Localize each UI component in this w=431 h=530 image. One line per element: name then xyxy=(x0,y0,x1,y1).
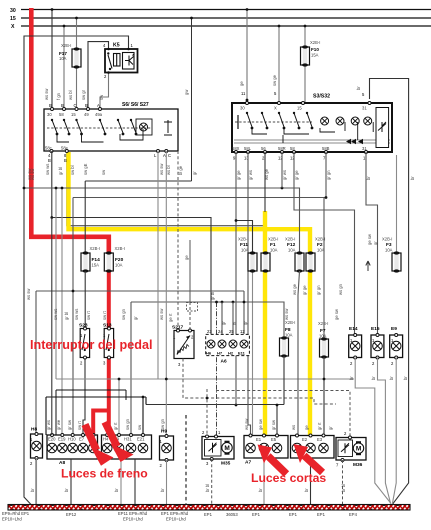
S3 sensor box xyxy=(376,108,389,148)
bus wire 15 xyxy=(21,17,431,19)
svg-text:br: br xyxy=(371,376,376,380)
svg-text:br: br xyxy=(304,488,309,492)
wire A8 ground stub xyxy=(70,459,72,504)
wire arrow stub near F3 xyxy=(366,261,370,271)
wire S3 pin12b to E14 xyxy=(294,152,355,335)
svg-text:EP10=Lhd: EP10=Lhd xyxy=(123,517,143,522)
headlamp unit A7 left xyxy=(244,434,288,466)
svg-text:br: br xyxy=(349,376,354,380)
svg-text:X2B-I: X2B-I xyxy=(115,246,125,251)
fuse F14 xyxy=(81,181,100,273)
svg-text:EP11 EP9=Rhd: EP11 EP9=Rhd xyxy=(118,511,148,516)
svg-text:58e: 58e xyxy=(61,146,69,151)
motor M36 xyxy=(336,431,366,468)
lamp unit E9 xyxy=(390,326,403,366)
lamp H9 xyxy=(160,429,174,469)
svg-text:58L: 58L xyxy=(244,146,252,151)
node dashed x207 y398 xyxy=(206,397,209,400)
svg-text:B: B xyxy=(48,158,51,163)
wire S3 pin13 to A7 xyxy=(248,152,251,436)
wire routing y197 xyxy=(73,198,324,439)
svg-text:br: br xyxy=(403,376,408,380)
ground rail hatched xyxy=(8,505,410,511)
svg-text:B: B xyxy=(61,103,64,108)
wire K5 pin2 to S6 pin A xyxy=(100,73,109,110)
wire dashed M36 feed xyxy=(216,391,350,438)
wire S3 pin12 down xyxy=(281,152,283,188)
fuse F8 xyxy=(280,320,296,358)
svg-text:br: br xyxy=(389,376,394,380)
svg-text:E19: E19 xyxy=(58,437,66,442)
svg-text:gr rt: gr rt xyxy=(317,422,322,430)
svg-text:gr: gr xyxy=(192,171,197,175)
svg-text:A8: A8 xyxy=(59,460,65,466)
wire dashed S6 to S217 xyxy=(177,151,179,331)
svg-text:X2B-I: X2B-I xyxy=(268,237,278,242)
svg-text:E15: E15 xyxy=(371,326,380,332)
svg-text:E11: E11 xyxy=(238,351,246,356)
svg-text:49a: 49a xyxy=(95,112,103,117)
node y302 x244 xyxy=(243,301,246,304)
svg-text:X2B-I: X2B-I xyxy=(315,237,325,242)
svg-text:ws ge: ws ge xyxy=(264,168,269,180)
svg-text:X2B-I: X2B-I xyxy=(318,321,328,326)
wire A6 pin feeds xyxy=(222,302,233,334)
svg-text:E9: E9 xyxy=(391,326,397,332)
svg-text:15: 15 xyxy=(71,112,76,117)
svg-text:C: C xyxy=(168,153,171,158)
wire x56 vertical xyxy=(55,188,57,379)
svg-text:ge: ge xyxy=(184,255,189,260)
svg-text:Luces de freno: Luces de freno xyxy=(61,467,148,481)
svg-text:sw gn: sw gn xyxy=(121,308,126,320)
node y188 x24 xyxy=(23,187,26,190)
svg-text:15: 15 xyxy=(10,16,16,22)
wire E15 to ground V xyxy=(378,358,391,504)
S3 contacts xyxy=(235,121,312,123)
wire S6 pinA down to H9 xyxy=(165,151,167,437)
node y397 x143 xyxy=(142,396,145,399)
svg-text:31: 31 xyxy=(362,106,367,111)
fuse F11 xyxy=(235,219,257,438)
wire S3 pin2 down to yellow xyxy=(264,152,266,212)
wire red battery feed vertical xyxy=(31,8,109,254)
svg-text:EP1 EP9=Rhd: EP1 EP9=Rhd xyxy=(161,511,189,516)
svg-text:E7: E7 xyxy=(79,437,85,442)
svg-text:58: 58 xyxy=(290,146,295,151)
svg-text:sw ws: sw ws xyxy=(74,309,79,320)
svg-text:gr bl: gr bl xyxy=(210,292,215,300)
svg-text:f gn: f gn xyxy=(56,92,61,100)
node y302 x233 xyxy=(232,301,235,304)
svg-text:ge: ge xyxy=(304,425,309,430)
svg-text:K5: K5 xyxy=(113,43,120,49)
fuse F20 xyxy=(104,246,125,273)
svg-text:gr ge: gr ge xyxy=(302,285,307,295)
svg-text:C: C xyxy=(74,103,77,108)
S3 internal wires xyxy=(252,122,373,143)
svg-text:M36: M36 xyxy=(353,462,363,468)
wire yellow from light switch S6 xyxy=(66,152,310,438)
svg-text:EP10=Lhd: EP10=Lhd xyxy=(2,517,22,522)
node busX x64 xyxy=(63,25,66,28)
svg-text:gr ws: gr ws xyxy=(282,170,287,180)
svg-text:br: br xyxy=(114,488,119,492)
svg-text:S6/ S6/ S27: S6/ S6/ S27 xyxy=(122,102,149,108)
svg-text:15A: 15A xyxy=(92,263,100,268)
fuse F3 xyxy=(382,237,401,273)
arrow brake right xyxy=(105,422,134,462)
svg-text:ws sw: ws sw xyxy=(284,308,289,320)
S3 internal bus xyxy=(234,139,390,141)
node x216 y302 xyxy=(215,301,218,304)
svg-text:H6: H6 xyxy=(206,351,212,356)
lamp unit E14 xyxy=(349,326,362,366)
lamp unit E15 xyxy=(371,326,384,366)
svg-text:sw rt: sw rt xyxy=(77,420,82,430)
svg-text:gr ge: gr ge xyxy=(294,170,299,180)
svg-text:H4: H4 xyxy=(103,437,109,442)
svg-text:X2B-I: X2B-I xyxy=(238,237,248,242)
svg-text:br: br xyxy=(258,488,263,492)
svg-text:Luces cortas: Luces cortas xyxy=(251,471,326,485)
bus wire 30 xyxy=(21,9,431,11)
svg-text:br: br xyxy=(30,488,35,492)
wire black under yellow highlight xyxy=(67,151,265,226)
wire K5 pin4 feed xyxy=(88,42,109,109)
svg-text:EP4: EP4 xyxy=(349,512,358,517)
wire F12 to A7 right pin1 xyxy=(298,271,300,436)
svg-text:gr gn: gr gn xyxy=(316,285,321,295)
svg-text:ge sw: ge sw xyxy=(367,233,372,245)
svg-text:EP1: EP1 xyxy=(252,512,261,517)
svg-text:sw bl: sw bl xyxy=(70,165,75,175)
node bus30 x52 xyxy=(51,8,54,11)
wire color labels rotated xyxy=(26,88,415,492)
wire F14 to S23 xyxy=(84,271,86,330)
lamp H8 xyxy=(30,427,43,467)
wire H9 ground stub xyxy=(166,460,168,504)
wire red through F20 down to S13 xyxy=(107,268,111,334)
wire E9 to ground V xyxy=(392,358,396,506)
svg-text:ws sw: ws sw xyxy=(44,88,49,100)
svg-text:bl ge: bl ge xyxy=(178,165,183,175)
wire E19 feed xyxy=(61,188,63,438)
wire F3 feed xyxy=(396,155,398,254)
svg-text:23: 23 xyxy=(207,329,212,334)
svg-text:sw gr: sw gr xyxy=(81,89,86,100)
svg-text:11: 11 xyxy=(241,91,246,96)
S6 internal lamp xyxy=(136,119,152,135)
bus wire X xyxy=(21,25,431,27)
svg-text:gr ws: gr ws xyxy=(248,170,253,180)
svg-text:ws sw: ws sw xyxy=(244,418,249,430)
wire S3 pin7 to F7 xyxy=(325,152,327,198)
svg-text:30: 30 xyxy=(47,112,52,117)
svg-text:sw gE: sw gE xyxy=(83,163,88,175)
svg-text:X2B-I: X2B-I xyxy=(310,40,320,45)
svg-text:EP1: EP1 xyxy=(289,512,298,517)
svg-text:ge: ge xyxy=(239,81,244,86)
svg-text:10A: 10A xyxy=(317,248,325,253)
svg-text:sw gn: sw gn xyxy=(160,418,165,430)
svg-text:br: br xyxy=(410,176,415,180)
wire lamp feed bus y397 xyxy=(46,397,146,438)
S6 internal wires xyxy=(57,129,143,142)
switch S13 brake pedal xyxy=(103,323,114,366)
wire dashed S217 to routing xyxy=(183,359,336,405)
wire S3 pin5b up right to ground rail xyxy=(370,79,409,506)
wire dashed M35 pin3 to ground xyxy=(211,459,213,504)
svg-text:ws ge: ws ge xyxy=(292,283,297,295)
svg-text:X: X xyxy=(11,24,15,30)
svg-text:E5: E5 xyxy=(271,437,277,442)
svg-text:B: B xyxy=(64,158,67,163)
svg-text:E20: E20 xyxy=(48,437,56,442)
svg-text:10A: 10A xyxy=(288,248,296,253)
svg-text:B: B xyxy=(49,103,52,108)
switch S23 xyxy=(79,323,90,366)
wire bus15 to F17 to S6 xyxy=(76,18,78,109)
svg-text:br: br xyxy=(356,86,361,90)
node y379 x119 xyxy=(118,378,121,381)
svg-text:sw ws: sw ws xyxy=(53,309,58,320)
node y188 x62 xyxy=(61,187,64,190)
svg-text:gr: gr xyxy=(133,316,138,320)
svg-text:sw rt: sw rt xyxy=(86,310,91,320)
wire busX to S6 pin xyxy=(63,26,65,109)
node x326 y197 xyxy=(325,196,328,199)
svg-text:sw rt: sw rt xyxy=(102,310,107,320)
fuse F17 xyxy=(59,43,81,69)
svg-text:gr ge: gr ge xyxy=(236,170,241,180)
svg-text:ge rt: ge rt xyxy=(168,313,173,322)
svg-text:58R: 58R xyxy=(278,146,286,151)
S3 bottom pins xyxy=(235,151,238,154)
instrument lamp unit A6 xyxy=(206,329,250,365)
relay K5 xyxy=(103,43,138,80)
wire dashed M35 pin2 xyxy=(206,389,208,437)
headlamp unit A7 right xyxy=(291,434,335,458)
wire E9b feed xyxy=(118,379,120,438)
wire S3 pin9 down xyxy=(235,152,237,405)
wire horizontal y405 xyxy=(146,405,284,436)
svg-text:24: 24 xyxy=(218,329,223,334)
svg-text:X2B-I: X2B-I xyxy=(285,237,295,242)
svg-text:ws gn: ws gn xyxy=(338,283,343,295)
wire A7 right ground stub xyxy=(310,458,312,504)
svg-text:49: 49 xyxy=(84,112,89,117)
svg-text:X2B-I: X2B-I xyxy=(61,43,71,48)
fuse F12 xyxy=(285,237,304,273)
wire S6 pinL down xyxy=(157,151,159,379)
wire S6 58c to routing xyxy=(52,151,211,334)
wire dashed M36 to ground xyxy=(342,460,344,504)
svg-text:H7: H7 xyxy=(217,351,223,356)
svg-text:br: br xyxy=(160,488,165,492)
svg-text:10A: 10A xyxy=(319,334,327,339)
node x236 y405 xyxy=(235,404,238,407)
svg-text:sw ge: sw ge xyxy=(272,74,277,86)
wire E14 to ground V xyxy=(355,358,391,504)
svg-text:EP10=Lhd: EP10=Lhd xyxy=(166,517,186,522)
left group boundary wire from K5 pin1 xyxy=(24,36,129,505)
svg-text:E21: E21 xyxy=(137,437,145,442)
svg-text:ge sw: ge sw xyxy=(334,308,339,320)
svg-text:A7: A7 xyxy=(245,460,251,466)
wire S3 pin1 to E15 xyxy=(366,152,378,335)
node y291 x73 xyxy=(72,290,75,293)
svg-text:EP9=Rhd EP1: EP9=Rhd EP1 xyxy=(2,511,30,516)
fuse F10 xyxy=(301,25,321,103)
svg-text:31: 31 xyxy=(362,146,367,151)
node y302 x222 xyxy=(221,301,224,304)
svg-text:F10: F10 xyxy=(311,47,319,52)
svg-text:gr ws: gr ws xyxy=(46,420,51,430)
svg-text:H31: H31 xyxy=(124,437,132,442)
svg-text:10A: 10A xyxy=(270,248,278,253)
S3 internal lamps xyxy=(321,117,329,125)
svg-text:gr: gr xyxy=(328,426,333,430)
svg-text:EP1: EP1 xyxy=(204,512,213,517)
light switch S3/S32 xyxy=(232,94,392,161)
S3 diodes xyxy=(346,139,356,145)
svg-text:A: A xyxy=(97,103,100,108)
svg-text:ws bl: ws bl xyxy=(68,90,73,100)
svg-text:gr bl: gr bl xyxy=(64,312,69,320)
wire from bus 15 down right side of group xyxy=(191,18,193,181)
wire group bottom edge xyxy=(85,180,191,182)
svg-text:br bl: br bl xyxy=(205,484,210,492)
svg-text:X2B-I: X2B-I xyxy=(90,246,100,251)
svg-text:10A: 10A xyxy=(115,263,123,268)
fuse F7 xyxy=(318,321,329,359)
svg-text:ws sw: ws sw xyxy=(26,288,31,300)
svg-text:E14: E14 xyxy=(349,326,358,332)
wire lamp feed bus y390 xyxy=(56,390,126,435)
svg-text:58X: 58X xyxy=(232,146,240,151)
svg-text:E1: E1 xyxy=(256,437,262,442)
svg-text:B: B xyxy=(85,103,88,108)
fuse F1 xyxy=(261,237,278,273)
svg-text:A: A xyxy=(163,153,166,158)
svg-text:H10: H10 xyxy=(68,437,76,442)
svg-text:H8: H8 xyxy=(31,427,37,433)
svg-text:ge sw: ge sw xyxy=(258,418,263,430)
svg-text:ws bl: ws bl xyxy=(166,165,171,175)
dimmer S217 xyxy=(172,325,194,368)
switch unit S6/S6/S27 xyxy=(44,102,178,163)
svg-text:gr sw: gr sw xyxy=(271,419,276,430)
svg-text:br bl: br bl xyxy=(341,484,346,492)
wire routing y291 xyxy=(36,291,244,505)
svg-text:E2: E2 xyxy=(302,437,308,442)
svg-text:gr: gr xyxy=(221,321,226,325)
svg-text:E3: E3 xyxy=(317,437,323,442)
svg-text:gr we: gr we xyxy=(56,419,61,430)
svg-text:gr rt: gr rt xyxy=(113,422,118,430)
svg-text:ws sw: ws sw xyxy=(159,308,164,320)
wire busX to S3 pin5 xyxy=(272,25,280,103)
svg-text:H2: H2 xyxy=(228,351,234,356)
node y379 x166 xyxy=(165,378,168,381)
svg-text:gr: gr xyxy=(373,241,378,245)
motor M35 xyxy=(202,430,234,467)
arrow brake left xyxy=(85,425,114,466)
svg-text:X: X xyxy=(274,106,277,111)
svg-text:br: br xyxy=(366,176,371,180)
arrow low beam right xyxy=(294,444,323,473)
tail lamp unit A9 xyxy=(102,434,152,460)
svg-text:X2B-I: X2B-I xyxy=(382,237,392,242)
wire gray routing y379 xyxy=(56,378,354,380)
wire E20 feed xyxy=(51,218,53,436)
svg-text:A6: A6 xyxy=(221,359,227,365)
svg-text:gr gn: gr gn xyxy=(326,170,331,180)
node x51.8 y217.5 xyxy=(50,216,53,219)
svg-text:M35: M35 xyxy=(221,461,231,467)
svg-text:sw gn: sw gn xyxy=(125,418,130,430)
svg-text:30: 30 xyxy=(10,8,16,14)
ground labels row xyxy=(2,511,358,522)
wire S23 to lamp E7 xyxy=(83,358,85,439)
node y188 x56 xyxy=(55,187,58,190)
svg-text:10A: 10A xyxy=(59,56,67,61)
svg-text:15: 15 xyxy=(297,106,302,111)
wire routing y302 xyxy=(131,302,284,438)
node x277 y405 xyxy=(276,404,279,407)
wire S217 pin2 xyxy=(189,240,191,302)
svg-text:10A: 10A xyxy=(241,248,249,253)
svg-text:ws sw: ws sw xyxy=(159,163,164,175)
svg-text:58: 58 xyxy=(59,112,64,117)
S6 contacts xyxy=(47,127,152,129)
section divider dashed xyxy=(185,415,187,504)
svg-text:36053: 36053 xyxy=(226,512,238,517)
svg-text:12: 12 xyxy=(240,329,245,334)
node bus 15 x191 xyxy=(190,17,193,20)
svg-text:30: 30 xyxy=(240,106,245,111)
svg-text:58c: 58c xyxy=(45,146,52,151)
svg-text:ws: ws xyxy=(291,425,296,430)
wire bus30 to S6 pin xyxy=(51,10,53,110)
arrow low beam left xyxy=(258,445,287,475)
svg-text:sw ws: sw ws xyxy=(45,164,50,175)
wire H8 ground stub xyxy=(36,458,38,504)
svg-text:10A: 10A xyxy=(285,333,293,338)
svg-text:br: br xyxy=(64,488,69,492)
svg-text:58B: 58B xyxy=(322,146,330,151)
svg-text:10A: 10A xyxy=(385,248,393,253)
node y188 x282 xyxy=(281,187,284,190)
wire A7 left ground stub xyxy=(263,458,265,504)
svg-text:bl: bl xyxy=(232,322,237,325)
wire red S13 to lamps with branch xyxy=(93,355,109,438)
wire dashdot M35 pin1 xyxy=(216,302,218,437)
svg-text:EP12: EP12 xyxy=(66,512,77,517)
connector dashed box xyxy=(187,303,198,312)
wire bus30 to S3 pin11 xyxy=(239,8,248,103)
node bus15 F17 xyxy=(75,17,78,20)
tail lamp unit A8 xyxy=(47,434,98,467)
svg-text:S3/S32: S3/S32 xyxy=(313,94,330,100)
wire F7 down to A7 right pin3 xyxy=(323,357,325,436)
S6 right contact xyxy=(164,120,172,135)
svg-text:15A: 15A xyxy=(311,53,319,58)
svg-text:ws sw: ws sw xyxy=(30,168,35,180)
svg-text:gr sw: gr sw xyxy=(67,419,72,430)
svg-text:56: 56 xyxy=(261,146,266,151)
